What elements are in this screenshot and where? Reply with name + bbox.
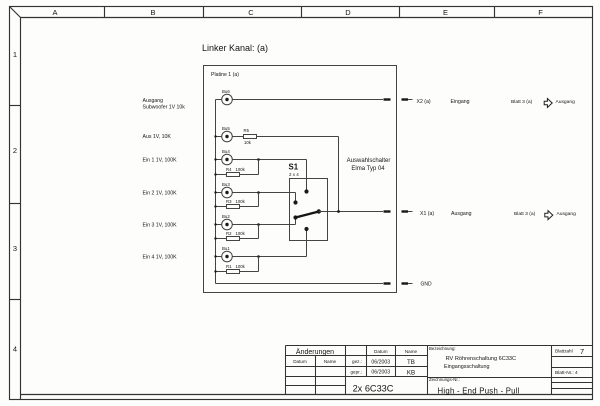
svg-text:S1: S1: [289, 162, 299, 171]
svg-text:RV Röhrenschaltung 6C33C: RV Röhrenschaltung 6C33C: [446, 356, 516, 362]
connector Bu1: [214, 246, 232, 262]
terminal X2 (a): [384, 99, 431, 105]
switch contact 1 (from Bu4): [304, 189, 308, 193]
svg-text:gez.:: gez.:: [352, 359, 362, 364]
terminal X1 (a): [384, 211, 435, 217]
svg-text:Bu5: Bu5: [222, 126, 230, 131]
terminal GND: [384, 282, 433, 288]
svg-text:Subwoofer 1V 10k: Subwoofer 1V 10k: [143, 105, 186, 111]
switch contact 3 (from Bu2): [293, 215, 297, 219]
connector Bu6: [216, 89, 233, 105]
svg-text:R1: R1: [226, 264, 232, 269]
svg-text:B: B: [150, 8, 155, 17]
resistor R4 100k: [214, 160, 258, 177]
switch contact 2 (from Bu3): [293, 200, 297, 204]
svg-text:Ein 3 1V, 100K: Ein 3 1V, 100K: [143, 222, 178, 228]
svg-text:Elma Typ 04: Elma Typ 04: [351, 166, 385, 172]
svg-text:100k: 100k: [236, 167, 246, 172]
svg-text:Blatt 3 (a): Blatt 3 (a): [511, 99, 533, 105]
svg-text:D: D: [345, 8, 351, 17]
connector Bu4: [214, 149, 232, 165]
svg-text:7: 7: [580, 347, 584, 356]
wire Bu1 to switch contact 4: [232, 229, 306, 258]
svg-text:F: F: [538, 8, 543, 17]
svg-text:Ausgang: Ausgang: [143, 98, 164, 104]
svg-text:Ein 2 1V, 100K: Ein 2 1V, 100K: [143, 190, 178, 196]
switch wiper pole: [317, 209, 321, 213]
svg-text:2: 2: [13, 146, 17, 155]
switch contact 4 (from Bu1): [304, 227, 308, 231]
off-sheet reference Blatt 3 (a) Ausgang (top): [511, 99, 575, 108]
svg-text:C: C: [248, 8, 254, 17]
wire Bu5 to R5: [232, 136, 243, 138]
svg-text:TB: TB: [407, 359, 415, 366]
svg-text:100k: 100k: [236, 264, 246, 269]
wire Bu2 to switch contact 3: [232, 218, 295, 226]
svg-text:R5: R5: [244, 128, 250, 133]
svg-text:A: A: [52, 8, 57, 17]
svg-text:06/2003: 06/2003: [371, 359, 390, 365]
svg-text:KB: KB: [407, 369, 415, 376]
svg-text:3: 3: [13, 244, 17, 253]
svg-text:Bu4: Bu4: [222, 149, 230, 154]
svg-text:Name: Name: [405, 349, 418, 354]
node junction R5/output: [337, 210, 340, 213]
svg-text:Bu1: Bu1: [222, 246, 230, 251]
svg-text:E: E: [443, 8, 448, 17]
svg-text:X1 (a): X1 (a): [420, 211, 434, 217]
svg-text:R4: R4: [226, 167, 232, 172]
svg-text:gepr.:: gepr.:: [351, 369, 363, 374]
svg-text:Ausgang: Ausgang: [557, 211, 577, 217]
svg-text:R2: R2: [226, 231, 232, 236]
svg-text:06/2003: 06/2003: [371, 370, 390, 376]
svg-text:Ein 4 1V, 100K: Ein 4 1V, 100K: [143, 254, 178, 260]
GND bus wire (bottom): [216, 283, 384, 285]
svg-text:Zeichnungs-Nr.:: Zeichnungs-Nr.:: [429, 377, 460, 382]
svg-text:Ausgang: Ausgang: [556, 99, 576, 105]
svg-text:100k: 100k: [236, 231, 246, 236]
svg-text:100k: 100k: [236, 199, 246, 204]
resistor R1 100k: [214, 257, 258, 274]
connector Bu3: [214, 182, 232, 198]
resistor R3 100k: [214, 193, 258, 209]
label Auswahlschalter Elma Typ 04: [347, 158, 391, 172]
svg-text:Bu3: Bu3: [222, 182, 230, 187]
svg-text:Bu6: Bu6: [222, 89, 230, 94]
svg-text:Eingangsschaltung: Eingangsschaltung: [444, 364, 490, 370]
svg-text:Blatt 3 (a): Blatt 3 (a): [514, 211, 536, 217]
svg-text:Linker Kanal: (a): Linker Kanal: (a): [202, 43, 268, 53]
svg-text:R3: R3: [226, 199, 232, 204]
connector Bu5: [214, 126, 232, 142]
wire R5 to output node: [257, 137, 339, 212]
wire Bu6 to X2: [232, 99, 383, 101]
svg-text:High - End Push - Pull: High - End Push - Pull: [438, 386, 520, 395]
svg-text:Aus 1V, 10K: Aus 1V, 10K: [143, 134, 172, 140]
svg-text:Blatt-Nr.: 4: Blatt-Nr.: 4: [555, 370, 578, 376]
resistor R2 100k: [214, 225, 258, 241]
svg-text:X2 (a): X2 (a): [417, 99, 431, 105]
svg-text:4: 4: [13, 345, 17, 354]
svg-text:2 x 4: 2 x 4: [289, 172, 299, 177]
svg-text:10k: 10k: [244, 140, 252, 145]
title block (Schriftfeld): [286, 346, 593, 396]
svg-text:Bu2: Bu2: [222, 214, 230, 219]
wire Bu3 to switch contact 2: [232, 191, 295, 202]
wire Bu4 to switch contact 1: [232, 158, 306, 191]
svg-text:Platine 1 (a): Platine 1 (a): [211, 72, 239, 78]
svg-text:Bezeichnung:: Bezeichnung:: [429, 346, 456, 351]
svg-text:2x 6C33C: 2x 6C33C: [353, 384, 394, 394]
svg-text:Auswahlschalter: Auswahlschalter: [347, 158, 391, 164]
svg-text:Eingang: Eingang: [451, 99, 470, 105]
svg-text:Datum: Datum: [374, 349, 388, 354]
rotary switch S1 2x4: [289, 162, 328, 240]
svg-text:Ausgang: Ausgang: [451, 211, 472, 217]
svg-text:Name: Name: [324, 359, 337, 364]
svg-text:GND: GND: [421, 282, 433, 288]
svg-text:Änderungen: Änderungen: [296, 348, 334, 356]
off-sheet reference Blatt 3 (a) Ausgang (bottom): [514, 211, 576, 220]
PCB outline Platine 1 (a): [204, 66, 397, 293]
connector Bu2: [214, 214, 232, 230]
switch wiper arm: [296, 212, 319, 218]
ground bus wire (left shield bus): [215, 100, 217, 284]
svg-text:Blattzahl: Blattzahl: [555, 349, 573, 354]
svg-text:Ein 1 1V, 100K: Ein 1 1V, 100K: [143, 157, 178, 163]
svg-text:1: 1: [13, 50, 17, 59]
wire wiper to X1: [319, 211, 383, 213]
svg-text:Datum: Datum: [293, 359, 307, 364]
signal label Ausgang Subwoofer: [143, 98, 186, 111]
resistor R5 10k: [244, 128, 257, 145]
